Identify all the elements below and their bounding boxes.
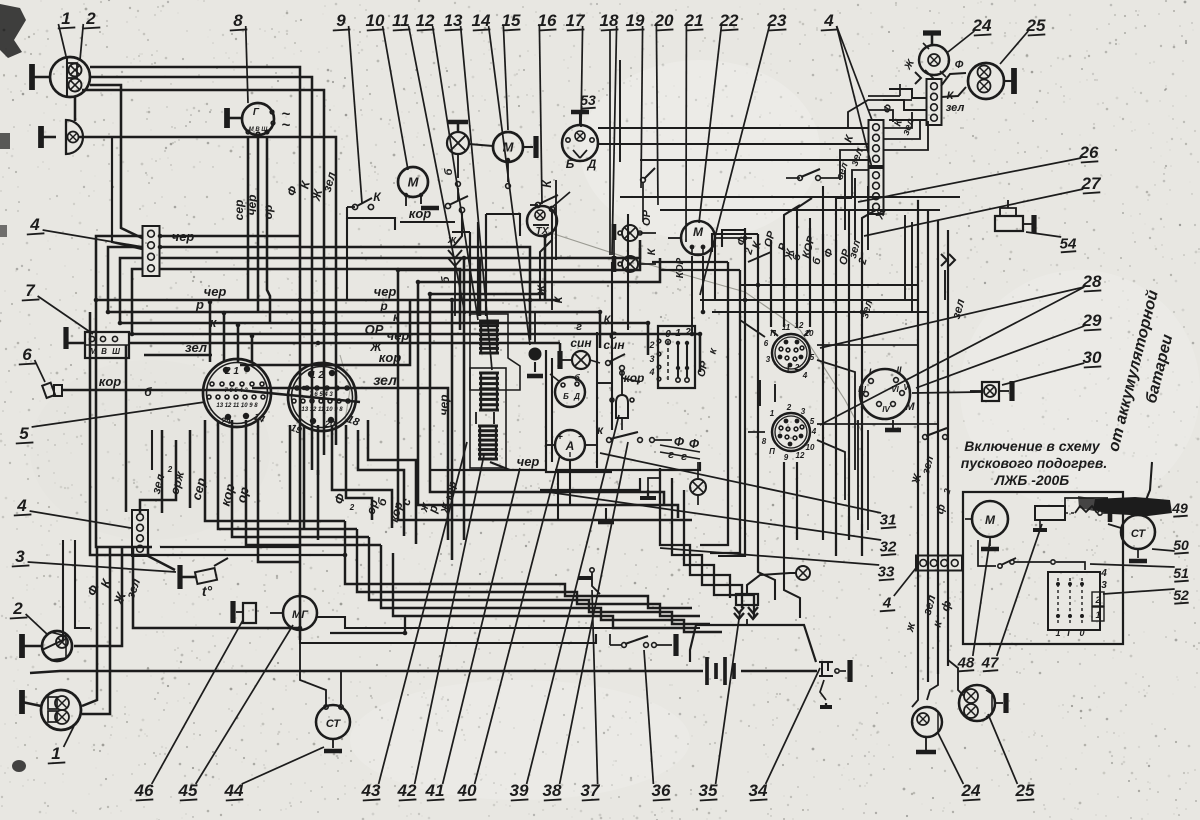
wire fuse feed verticals — [469, 232, 471, 316]
svg-text:Б: Б — [566, 157, 575, 171]
svg-text:0: 0 — [665, 329, 671, 340]
svg-text:32: 32 — [880, 538, 897, 555]
svg-text:МГ: МГ — [292, 609, 309, 621]
arrow marks — [448, 250, 462, 258]
svg-text:3: 3 — [801, 407, 806, 416]
wire drops join loops — [205, 470, 345, 521]
switch right-mid — [923, 435, 928, 440]
light switch МВШ 7 — [85, 332, 129, 358]
svg-text:3: 3 — [649, 354, 654, 364]
svg-text:2: 2 — [786, 403, 792, 412]
svg-text:9: 9 — [784, 453, 789, 462]
switch block 31 (dashed) — [658, 326, 695, 388]
parking lamp 2 bottom-left — [42, 631, 72, 661]
svg-text:СТ: СТ — [1131, 528, 1147, 540]
starter СТ right — [1121, 515, 1155, 549]
svg-text:2: 2 — [794, 363, 800, 372]
svg-text:чер: чер — [437, 395, 451, 416]
svg-text:0: 0 — [1079, 628, 1084, 638]
svg-text:11: 11 — [782, 323, 791, 332]
svg-text:ТХ: ТХ — [536, 226, 550, 237]
motor М 48 — [972, 501, 1008, 537]
svg-text:24: 24 — [220, 416, 231, 426]
ground lamp2 bottom — [19, 634, 25, 658]
wire vertical чер bundle — [451, 300, 454, 560]
svg-text:к: к — [597, 423, 604, 437]
svg-text:б: б — [144, 385, 152, 399]
svg-text:П: П — [769, 447, 775, 456]
svg-text:3: 3 — [766, 355, 771, 364]
wire Ж К down — [551, 237, 553, 310]
tail lamp 24 bottom — [912, 707, 942, 737]
lamp 24 top — [923, 30, 941, 35]
wire СТ up — [300, 640, 326, 705]
svg-text:46: 46 — [134, 781, 154, 800]
svg-text:2: 2 — [648, 340, 654, 350]
svg-text:II: II — [896, 365, 902, 375]
smudge 49 bar — [1093, 497, 1172, 516]
wire drops to cluster — [529, 300, 532, 340]
svg-text:t°: t° — [202, 583, 213, 599]
svg-text:зел: зел — [946, 102, 965, 114]
wire mesh right horizontals — [598, 127, 868, 129]
svg-text:9: 9 — [336, 11, 346, 30]
ground МВШ — [63, 327, 68, 349]
svg-text:5: 5 — [810, 417, 815, 426]
left verticals to bottom — [90, 312, 150, 555]
svg-text:Д: Д — [573, 392, 580, 401]
connector strip right B — [869, 168, 884, 214]
lamp pair 19 — [612, 224, 617, 240]
ground generator — [224, 108, 230, 128]
wire long верх bus — [619, 60, 621, 162]
scan smudge top-left — [0, 4, 26, 58]
svg-text:сер: сер — [232, 200, 246, 221]
svg-text:Ж: Ж — [536, 284, 548, 296]
staircase upper-right — [660, 468, 730, 598]
wire mesh inner loops — [418, 258, 660, 282]
wire lamp2 — [79, 137, 336, 334]
svg-text:2 1: 2 1 — [224, 366, 239, 377]
svg-text:52: 52 — [1173, 587, 1189, 603]
switch 19 — [641, 178, 646, 183]
svg-text:син: син — [570, 336, 592, 350]
svg-text:3: 3 — [1101, 580, 1107, 591]
svg-text:5: 5 — [19, 424, 29, 443]
gauge frame wires — [546, 350, 612, 472]
plug connector 6 — [42, 383, 55, 398]
svg-text:чер: чер — [374, 284, 397, 299]
battery trapezoid — [696, 625, 816, 662]
wire connector feeds above — [209, 302, 212, 362]
svg-text:кор: кор — [379, 350, 402, 365]
svg-text:1: 1 — [770, 409, 775, 418]
ground 53 — [571, 110, 589, 115]
svg-text:кор: кор — [409, 206, 432, 221]
main bus bottom — [30, 671, 703, 673]
connector block 4 right — [916, 556, 962, 571]
svg-text:4: 4 — [811, 427, 817, 436]
switch panel 52 — [1048, 572, 1100, 630]
headlamp 25 top — [968, 63, 1004, 99]
wire drops 5b — [289, 425, 292, 475]
wire lamp12 to М15 — [469, 144, 493, 146]
svg-text:4: 4 — [29, 215, 40, 234]
svg-text:13 12 11 10 9 8: 13 12 11 10 9 8 — [216, 403, 258, 409]
connector strip top-right — [927, 79, 942, 125]
svg-text:чер: чер — [204, 284, 227, 299]
tee ground center — [647, 490, 649, 498]
fuse block middle — [480, 373, 482, 410]
svg-text:44: 44 — [224, 781, 244, 800]
wires strip left elbows — [889, 89, 926, 98]
contact row 51 — [998, 564, 1002, 568]
plug 46 — [243, 603, 256, 623]
thermo switch 3 — [177, 565, 182, 589]
svg-text:1: 1 — [675, 328, 681, 339]
heater motor МГ 45 — [283, 596, 317, 630]
svg-text:зел: зел — [185, 340, 207, 355]
svg-text:ЛЖБ -200Б: ЛЖБ -200Б — [994, 472, 1069, 488]
switch 14 — [535, 202, 540, 207]
svg-text:38: 38 — [543, 781, 562, 800]
svg-text:М: М — [693, 225, 704, 239]
wire zigzag верх — [852, 170, 868, 197]
svg-text:40: 40 — [457, 781, 477, 800]
svg-text:20: 20 — [324, 419, 335, 429]
svg-text:28: 28 — [1082, 272, 1102, 291]
ground headlamp bottom — [19, 690, 25, 714]
svg-text:1: 1 — [1095, 610, 1100, 620]
svg-text:кор: кор — [624, 371, 645, 385]
wires at block4 — [160, 235, 300, 238]
svg-text:42: 42 — [397, 781, 417, 800]
svg-text:27: 27 — [1081, 174, 1102, 193]
svg-text:б: б — [440, 275, 452, 283]
wires strip to headlamp — [941, 73, 966, 86]
hook wire 34 — [820, 680, 826, 700]
starter СТ 44 — [316, 705, 350, 739]
wire generator leads — [247, 136, 250, 300]
svg-text:47: 47 — [981, 654, 999, 671]
scan crease curve — [548, 232, 862, 432]
svg-text:49: 49 — [1171, 500, 1188, 516]
connector block 4 top-left — [143, 226, 160, 276]
nested wire loops — [345, 521, 692, 608]
svg-text:2: 2 — [85, 9, 96, 28]
svg-text:IV: IV — [882, 405, 890, 414]
svg-text:р: р — [379, 299, 387, 313]
svg-text:р: р — [195, 297, 204, 312]
svg-text:кор: кор — [99, 374, 122, 389]
svg-text:50: 50 — [1173, 537, 1189, 553]
thermal fuse 34 — [819, 661, 833, 663]
svg-text:4: 4 — [802, 371, 808, 380]
parking lamp 2 (top-left) — [66, 120, 83, 154]
svg-text:48: 48 — [957, 654, 975, 671]
svg-text:М: М — [408, 175, 420, 190]
svg-text:2: 2 — [1094, 595, 1100, 605]
fuse block 11 top — [480, 321, 482, 353]
chevron Ж 24 — [915, 72, 921, 84]
switch 13 contacts — [445, 203, 450, 208]
headlamp 1 (top-left) — [50, 57, 90, 97]
svg-text:2: 2 — [12, 599, 23, 618]
svg-text:б: б — [443, 167, 455, 175]
wire чер under fuses — [490, 462, 545, 470]
svg-text:зел: зел — [373, 372, 397, 388]
wire МВШ bus — [129, 342, 560, 345]
svg-text:В: В — [101, 347, 107, 356]
connector strip right A — [869, 120, 884, 166]
switch 36 — [622, 643, 627, 648]
svg-text:29: 29 — [1082, 311, 1102, 330]
svg-text:СТ: СТ — [326, 718, 342, 730]
wire right top runs — [899, 84, 901, 96]
multi-pin connector 28b — [772, 413, 810, 451]
motor М 10 (wiper) — [398, 167, 428, 197]
device ТХ 16 — [527, 206, 557, 236]
svg-text:Г: Г — [253, 107, 260, 118]
distributor БД 53 — [562, 125, 598, 161]
flasher relay М 22 — [681, 221, 715, 255]
svg-text:8: 8 — [762, 437, 767, 446]
wire right loop verticals — [700, 262, 728, 545]
svg-text:Включение в схему: Включение в схему — [964, 438, 1101, 454]
ignition switch 29 — [860, 369, 910, 419]
svg-text:б: б — [574, 373, 580, 383]
lamp 12 with ground — [448, 120, 468, 125]
connector block 4 left-mid — [132, 510, 148, 556]
svg-text:4: 4 — [16, 496, 27, 515]
motor М 15 — [493, 132, 523, 162]
svg-text:4: 4 — [648, 367, 654, 377]
svg-text:51: 51 — [1173, 565, 1189, 581]
svg-text:30: 30 — [1083, 348, 1102, 367]
svg-text:3: 3 — [15, 547, 25, 566]
junction dots — [158, 234, 163, 239]
svg-text:1: 1 — [61, 9, 70, 28]
svg-text:2: 2 — [349, 503, 355, 512]
svg-text:2: 2 — [684, 327, 691, 338]
wire К down from 15 — [555, 180, 557, 260]
svg-text:4: 4 — [882, 594, 892, 611]
svg-text:М: М — [985, 513, 996, 527]
vertical wire bundle right-center — [744, 228, 746, 556]
svg-text:Ш: Ш — [858, 385, 866, 394]
fuel gauge БД — [555, 377, 585, 407]
generator 8 — [242, 103, 274, 135]
svg-text:А: А — [565, 439, 575, 453]
svg-text:54: 54 — [1060, 235, 1077, 252]
svg-text:Ф: Ф — [955, 59, 964, 71]
svg-text:Ш: Ш — [112, 347, 120, 356]
indicator lamp (charge) — [529, 348, 542, 361]
lamp 33 — [690, 479, 706, 495]
svg-text:6: 6 — [764, 339, 769, 348]
wires into tail lamps — [912, 690, 918, 707]
multi-pin connector 5a — [203, 359, 271, 427]
square lamp 30 — [982, 382, 999, 401]
breaker symbol — [1075, 506, 1097, 513]
svg-text:43: 43 — [361, 781, 381, 800]
switch 9 — [352, 204, 357, 209]
svg-text:41: 41 — [425, 781, 445, 800]
multi-pin connector 28a — [772, 334, 810, 372]
svg-text:12: 12 — [795, 321, 804, 330]
switch 37 small — [590, 568, 594, 572]
svg-text:1: 1 — [51, 744, 60, 763]
wire mesh left horizontals — [96, 299, 560, 302]
svg-text:−: − — [578, 432, 584, 443]
svg-text:12: 12 — [796, 451, 805, 460]
wire box top — [1065, 498, 1108, 508]
scan smudge bottom-left — [12, 760, 26, 772]
svg-text:4: 4 — [823, 11, 834, 30]
svg-text:11: 11 — [392, 11, 410, 30]
svg-text:Б: Б — [563, 392, 569, 401]
relay 54 — [995, 216, 1023, 231]
bundle top bends — [722, 230, 745, 247]
svg-text:5: 5 — [810, 353, 815, 362]
bundle bottom bends — [718, 540, 745, 556]
svg-text:Ф: Ф — [674, 434, 685, 449]
battery — [705, 657, 709, 685]
svg-text:53: 53 — [580, 92, 596, 108]
wires into 28b — [748, 431, 765, 433]
wire кор from 6 — [62, 390, 360, 402]
wires from block 4b down — [82, 546, 97, 706]
svg-text:чер: чер — [245, 195, 259, 216]
fuse block bottom — [479, 426, 481, 459]
horizontal runs bottom left — [150, 554, 345, 556]
svg-text:М: М — [905, 401, 915, 413]
svg-text:6: 6 — [22, 345, 32, 364]
svg-text:Г: Г — [1067, 628, 1073, 638]
wire mid horizontals lower — [430, 469, 545, 471]
ground headlamp 1 — [29, 64, 35, 90]
wire headlamp feeds — [90, 67, 300, 300]
svg-text:36: 36 — [652, 781, 671, 800]
right bundle verticals — [917, 200, 919, 690]
ammeter А — [555, 430, 585, 460]
sub-circuit box — [963, 492, 1123, 644]
svg-text:чер: чер — [387, 328, 410, 343]
svg-text:35: 35 — [699, 781, 718, 800]
svg-text:г: г — [576, 321, 582, 333]
svg-text:пускового подогрев.: пускового подогрев. — [961, 455, 1107, 471]
svg-text:чер: чер — [517, 454, 540, 469]
svg-text:24: 24 — [972, 16, 992, 35]
svg-text:25: 25 — [1026, 16, 1046, 35]
tee ground center2 — [605, 508, 607, 520]
tail lamp 25 bottom — [959, 685, 995, 721]
pull switch 39 — [616, 395, 628, 418]
relay 47 — [1035, 506, 1065, 520]
svg-text:16: 16 — [538, 11, 557, 30]
svg-text:8: 8 — [233, 11, 243, 30]
svg-text:31: 31 — [880, 511, 897, 528]
wire connector drops — [204, 420, 207, 470]
svg-text:25: 25 — [1015, 781, 1035, 800]
svg-text:1: 1 — [1055, 628, 1060, 638]
svg-text:34: 34 — [749, 781, 768, 800]
chevron arrows — [734, 607, 744, 613]
svg-text:П: П — [770, 329, 776, 338]
svg-text:ор: ор — [261, 205, 275, 220]
svg-text:~: ~ — [282, 117, 291, 134]
svg-text:4: 4 — [1100, 568, 1107, 579]
svg-text:Д: Д — [587, 157, 597, 171]
fuse outline lower — [470, 368, 506, 468]
svg-text:33: 33 — [878, 563, 895, 580]
svg-text:45: 45 — [178, 781, 198, 800]
lamp син — [557, 351, 562, 369]
svg-text:КОР: КОР — [675, 257, 686, 278]
svg-text:С: С — [609, 330, 618, 342]
svg-text:V: V — [903, 383, 909, 392]
svg-text:26: 26 — [1079, 143, 1099, 162]
svg-text:39: 39 — [510, 781, 529, 800]
svg-text:10: 10 — [805, 329, 814, 338]
multi-pin connector 5b — [288, 363, 356, 431]
svg-text:+: + — [557, 432, 563, 443]
wire battery down — [1146, 462, 1152, 500]
svg-text:15: 15 — [502, 11, 521, 30]
headlamp 1 bottom-left — [41, 690, 81, 730]
wire fuse to lamp — [747, 573, 796, 594]
svg-text:10: 10 — [806, 443, 815, 452]
svg-text:7: 7 — [25, 281, 36, 300]
svg-text:7 6 5 4 3: 7 6 5 4 3 — [224, 388, 248, 394]
svg-text:к: к — [393, 310, 400, 324]
ground lamp 2 — [38, 126, 44, 148]
wires into 28a — [740, 300, 765, 337]
switch 23 target — [798, 176, 803, 181]
svg-text:24: 24 — [961, 781, 981, 800]
svg-text:Ф: Ф — [689, 436, 700, 451]
fuse box 35 — [736, 594, 758, 605]
lamp 33b — [796, 566, 810, 580]
wires from strips to lamps — [884, 112, 912, 128]
chevron marks зел right — [941, 254, 947, 266]
svg-text:ОР: ОР — [365, 322, 384, 337]
svg-text:1: 1 — [786, 365, 791, 374]
